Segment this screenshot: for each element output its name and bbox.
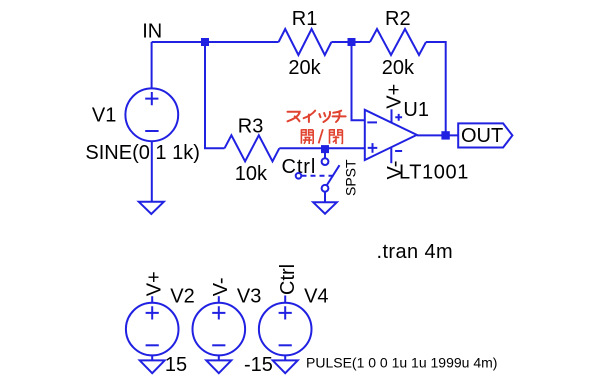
wire R1 to middle junction: [331, 41, 351, 43]
V4 plus marker: [279, 306, 292, 319]
svg-text:15: 15: [165, 354, 187, 376]
wire IN down to V1: [151, 42, 153, 89]
resistor R2: [370, 29, 426, 55]
voltage source V4 circle: [259, 303, 312, 356]
wire junction to R2: [352, 41, 371, 43]
V3 bottom stub: [218, 355, 220, 360]
wire switch to ground: [324, 192, 326, 203]
op-amp minus input marker: [367, 121, 377, 123]
wire R3 to non-inverting input: [279, 147, 365, 149]
svg-text:V-: V-: [210, 277, 232, 296]
svg-text:V1: V1: [92, 104, 116, 126]
resistor R1: [279, 29, 332, 55]
op-amp V- minus marker: [395, 150, 402, 152]
junction output node: [441, 131, 449, 139]
svg-text:.tran 4m: .tran 4m: [377, 241, 454, 263]
V2 plus marker: [146, 306, 159, 319]
svg-text:U1: U1: [403, 99, 429, 121]
svg-text:-15: -15: [244, 354, 273, 376]
switch control dashed line: [302, 175, 338, 177]
wire R2 right corner down to output: [426, 42, 446, 135]
V2 top pin stub: [151, 296, 153, 303]
svg-text:OUT: OUT: [461, 125, 503, 147]
ground below V4: [273, 360, 298, 373]
red comment switch (katakana): [288, 111, 346, 122]
switch bottom terminal: [322, 185, 329, 192]
svg-text:V4: V4: [304, 286, 328, 308]
svg-text:V2: V2: [170, 285, 194, 307]
svg-text:LT1001: LT1001: [399, 161, 469, 183]
svg-text:IN: IN: [142, 21, 162, 43]
op-amp U1 triangle: [365, 110, 417, 160]
ground below V2: [140, 360, 165, 373]
switch blade: [327, 165, 340, 185]
V4 bottom stub: [284, 355, 286, 360]
V3 minus marker: [212, 344, 225, 346]
svg-text:R1: R1: [292, 8, 318, 30]
resistor R3: [225, 135, 280, 161]
svg-text:Ctrl: Ctrl: [282, 156, 317, 178]
wire inverting input from junction: [352, 42, 365, 120]
V4 top pin stub: [284, 296, 286, 303]
svg-text:20k: 20k: [382, 57, 415, 79]
wire op-amp output: [417, 134, 458, 136]
voltage source V3 circle: [193, 303, 246, 356]
V2 bottom stub: [151, 355, 153, 360]
voltage source V1 circle: [125, 88, 178, 141]
ground below switch: [313, 202, 337, 213]
svg-text:R2: R2: [385, 8, 411, 30]
red comment open/close (kanji): [301, 129, 342, 144]
V3 top pin stub: [218, 296, 220, 303]
junction switch node: [321, 145, 329, 153]
svg-text:SINE(0 1 1k): SINE(0 1 1k): [85, 142, 199, 164]
port flag OUT: [458, 123, 512, 147]
svg-text:PULSE(1 0 0 1u 1u 1999u 4m): PULSE(1 0 0 1u 1u 1999u 4m): [306, 354, 497, 370]
wire top horizontal IN to R1: [152, 41, 279, 43]
voltage source V2 circle: [126, 303, 179, 356]
V1 minus marker: [145, 130, 158, 132]
svg-text:SPST: SPST: [342, 159, 358, 196]
svg-text:R3: R3: [238, 115, 264, 137]
op-amp V- pin: [390, 147, 392, 163]
V3 plus marker: [212, 306, 225, 319]
svg-text:20k: 20k: [288, 57, 321, 79]
svg-text:Ctrl: Ctrl: [277, 264, 299, 295]
switch S1 top terminal: [322, 158, 329, 165]
svg-text:V+: V+: [144, 271, 166, 296]
svg-text:V3: V3: [237, 286, 261, 308]
svg-text:V+: V+: [384, 84, 406, 109]
junction feedback node: [348, 38, 356, 46]
junction IN node: [201, 38, 209, 46]
ground below V1: [139, 202, 164, 214]
svg-text:10k: 10k: [235, 163, 268, 185]
V4 minus marker: [279, 344, 292, 346]
switch control terminal: [296, 173, 302, 179]
switch stub from junction: [324, 148, 326, 158]
op-amp V+ pin: [391, 109, 393, 122]
op-amp plus input marker: [368, 143, 378, 153]
op-amp V+ plus marker: [395, 114, 402, 121]
ground below V3: [206, 360, 231, 373]
wire V1 bottom to ground: [151, 141, 153, 202]
V1 plus marker: [145, 92, 158, 105]
V2 minus marker: [146, 344, 159, 346]
wire junction down to R3 row: [205, 42, 225, 148]
